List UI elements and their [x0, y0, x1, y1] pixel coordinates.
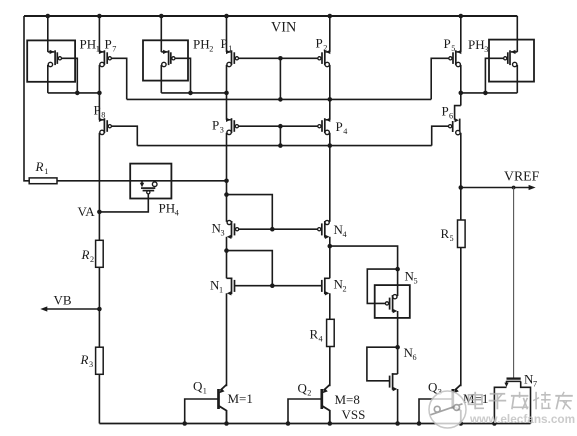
power rail VIN [24, 14, 517, 36]
svg-text:PH: PH [193, 37, 210, 52]
svg-text:4: 4 [343, 230, 347, 239]
svg-text:M=8: M=8 [335, 392, 360, 407]
wire P3-P4 gate line with tap to bus2 [239, 124, 318, 146]
transistor Q3 (PNP, M=1) [419, 379, 488, 423]
svg-text:PH: PH [159, 201, 176, 216]
transistor N6 [390, 345, 417, 391]
svg-text:1: 1 [228, 44, 232, 53]
svg-text:VA: VA [78, 204, 96, 219]
wire R5 to Q3 emitter [460, 248, 462, 387]
wire PH3 drain from rail [516, 16, 518, 52]
svg-text:8: 8 [101, 111, 105, 120]
transistor P2 [316, 36, 331, 67]
wire PH1/P7 source bus [48, 91, 102, 96]
node VREF [459, 169, 540, 191]
resistor R5 [441, 220, 466, 248]
resistor R4 [310, 319, 335, 346]
wire P6 source to VREF node [460, 133, 462, 188]
svg-text:2: 2 [323, 44, 327, 53]
svg-text:3: 3 [484, 45, 488, 54]
svg-text:6: 6 [449, 112, 453, 121]
node VB [40, 293, 101, 312]
transistor N1 [210, 278, 235, 296]
svg-text:3: 3 [221, 229, 225, 238]
wire P5 drain [460, 16, 462, 52]
wire P5 gate to bus1 [431, 58, 449, 99]
wire VA to PH4 gate [99, 194, 148, 212]
wire N3-N4 gate line [239, 228, 318, 230]
transistor P4 [318, 118, 348, 137]
resistor R3 [80, 347, 104, 374]
wire cascode bias bus (upper) [127, 97, 432, 102]
resistor R1 [29, 159, 57, 184]
wire PH1 drain [47, 16, 49, 52]
wire R4 to Q2 emitter [329, 347, 331, 387]
svg-text:R: R [80, 352, 89, 367]
transistor N5 (boxed) [375, 269, 418, 318]
wire P2 source to P4 drain [329, 65, 331, 120]
wire P1 source to P3 drain [226, 65, 228, 120]
svg-text:4: 4 [175, 209, 179, 218]
wire R1 to N3 drain node [57, 179, 229, 184]
transistor P6 [442, 104, 461, 135]
wire N1 drain-gate loop [224, 248, 274, 288]
svg-text:5: 5 [450, 234, 454, 243]
svg-text:4: 4 [319, 335, 323, 344]
wire N6 source to VSS [397, 389, 399, 424]
wire P7 gate to bias bus1 [111, 58, 126, 99]
svg-text:R: R [35, 159, 44, 174]
wire cascode bias bus (lower) [137, 143, 431, 148]
wire N6 drain-gate loop [367, 345, 400, 381]
transistor PH4 (boxed PMOS, rotated) [130, 164, 179, 218]
wire P2 drain [329, 16, 331, 52]
svg-text:7: 7 [533, 380, 537, 389]
resistor R2 [81, 240, 104, 267]
svg-text:3: 3 [89, 360, 93, 369]
transistor P8 [94, 103, 112, 135]
svg-text:P: P [105, 37, 112, 52]
svg-text:R: R [81, 247, 90, 262]
transistor PH2 (boxed PMOS) [143, 37, 213, 81]
wire PH2 gate tie [175, 58, 191, 93]
transistor P1 [221, 36, 239, 67]
svg-text:6: 6 [413, 353, 417, 362]
wire N1 source to Q1 emitter [226, 293, 228, 386]
svg-text:VREF: VREF [504, 169, 540, 184]
svg-text:1: 1 [219, 286, 223, 295]
wire P3 source down to N3 [226, 133, 228, 222]
wire N4 source node to N5 [328, 237, 398, 278]
wire PH1 gate tie [62, 58, 78, 93]
wire PH1 source down [47, 65, 49, 93]
svg-text:P: P [212, 118, 219, 133]
wire P7 drain [98, 16, 100, 52]
svg-text:2: 2 [307, 389, 311, 398]
svg-text:M=1: M=1 [228, 391, 253, 406]
wire PH2 drain [160, 16, 162, 52]
ground rail VSS [99, 407, 530, 426]
svg-text:VIN: VIN [271, 20, 296, 36]
svg-text:P: P [336, 119, 343, 134]
svg-text:VSS: VSS [342, 407, 366, 422]
svg-text:P: P [444, 36, 451, 51]
svg-text:5: 5 [414, 277, 418, 286]
wire P8 gate to bias bus2 [111, 126, 137, 145]
svg-text:4: 4 [343, 127, 347, 136]
wire N5 drain-gate loop [367, 267, 400, 304]
svg-text:P: P [442, 104, 449, 119]
wire P7 source to P8 drain [98, 65, 100, 120]
transistor PH1 (boxed PMOS) [27, 37, 100, 82]
svg-text:P: P [316, 36, 323, 51]
wire P1 drain [226, 16, 228, 52]
node VA [78, 204, 102, 219]
wire VIN to R1 (left border) [24, 16, 29, 181]
wire P6 gate to bus2 [432, 126, 449, 145]
wire N3 source to N1 drain [226, 237, 228, 278]
wire P5/PH3 source bus [459, 91, 518, 96]
wire PH2/P1 source bus [161, 91, 229, 96]
transistor PH3 (boxed PMOS) [468, 37, 534, 82]
wire PH2 source down [160, 65, 162, 93]
transistor P7 [99, 37, 116, 67]
wire VREF to R5 [460, 188, 462, 221]
svg-text:3: 3 [220, 126, 224, 135]
wire P1-P2 gate line with tap to bus1 [239, 56, 318, 99]
wire N2 source to R4 [329, 293, 331, 319]
svg-text:2: 2 [343, 285, 347, 294]
svg-text:R: R [310, 327, 319, 342]
svg-text:1: 1 [203, 387, 207, 396]
svg-text:2: 2 [90, 255, 94, 264]
transistor N4 [318, 220, 347, 239]
svg-text:1: 1 [44, 167, 48, 176]
svg-text:R: R [441, 226, 450, 241]
transistor Q2 (PNP, M=8) [288, 381, 360, 424]
transistor P3 [212, 118, 238, 135]
svg-text:Q: Q [428, 379, 438, 394]
wire R3 to VSS rail [98, 374, 100, 423]
transistor N7 (MOS cap on VREF) [494, 372, 537, 424]
svg-text:Q: Q [193, 379, 203, 394]
svg-text:VB: VB [54, 293, 72, 308]
watermark decorative overlay [429, 391, 575, 428]
svg-text:5: 5 [451, 44, 455, 53]
transistor N3 [212, 220, 239, 239]
svg-text:Q: Q [298, 381, 308, 396]
svg-text:PH: PH [468, 37, 485, 52]
svg-text:PH: PH [80, 37, 97, 52]
wire P5 source down [460, 65, 462, 106]
wire R2 to R3 [98, 267, 100, 347]
svg-text:www.elecfans.com: www.elecfans.com [469, 412, 575, 426]
wire PH3 source down [516, 65, 518, 93]
wire N3 drain-gate loop [224, 192, 274, 231]
wire P8 source / VA column [98, 133, 100, 241]
transistor P5 [444, 36, 462, 67]
wire N5 source down [397, 311, 399, 347]
wire VREF to N7 gate [513, 188, 515, 378]
transistor N2 [322, 277, 347, 296]
wire N1-N2 gate line [235, 285, 322, 287]
svg-text:P: P [94, 103, 101, 118]
wire P4 source down to N4 [329, 133, 331, 222]
svg-text:7: 7 [112, 45, 116, 54]
wire PH3 gate tie [485, 58, 503, 93]
svg-text:2: 2 [209, 45, 213, 54]
transistor Q1 (PNP, M=1) [185, 379, 253, 424]
